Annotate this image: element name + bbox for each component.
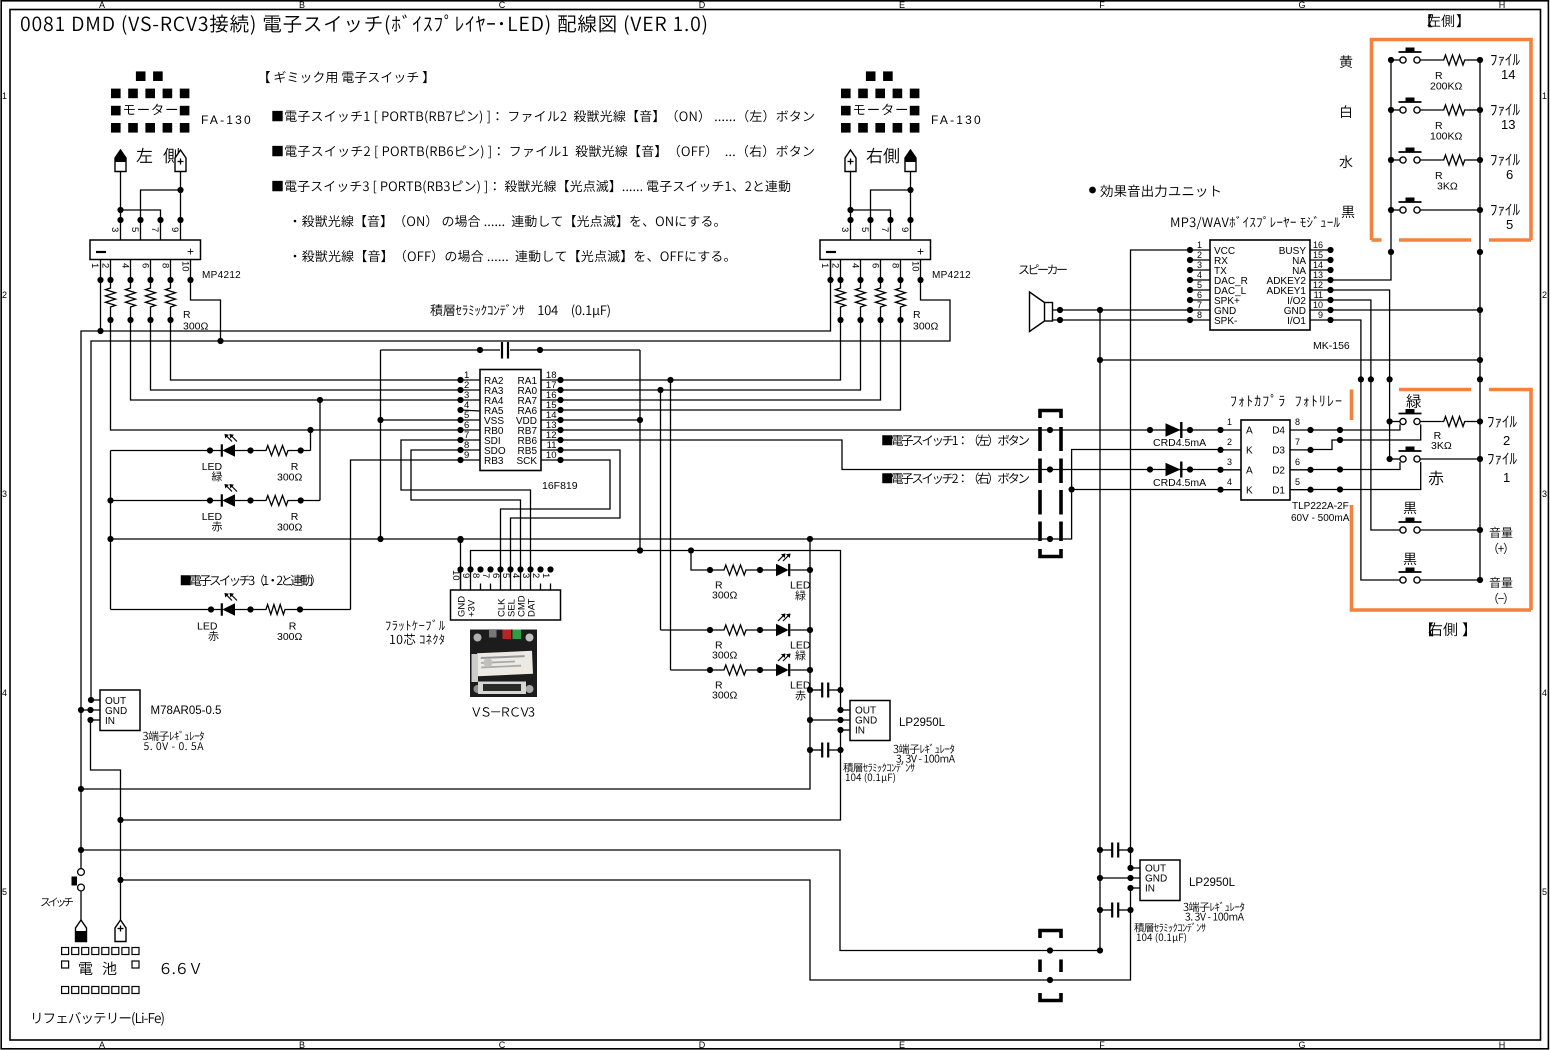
resistor R 300Ω (U1 pin2): [110, 280, 112, 286]
wire U5 D4 to file2 button left: [1311, 424, 1401, 430]
wire +3.3V bus y=550.5: [471, 551, 841, 711]
svg-text:SPK-: SPK-: [1214, 316, 1237, 327]
svg-text:G: G: [1298, 0, 1305, 10]
pin stubs J1: [460, 570, 462, 591]
label flat cable: [386, 622, 391, 631]
label ファイル6: [1491, 155, 1497, 166]
svg-text:13: 13: [1313, 270, 1323, 280]
svg-text:LED: LED: [202, 511, 223, 523]
note: switch 3 description: [272, 181, 282, 191]
svg-text:MP4212: MP4212: [202, 270, 241, 281]
capacitor C1 104 0.1uF (PIC VDD decoupling): [381, 349, 501, 351]
wire VSS rail x=380.5: [380, 350, 382, 539]
label ファイル5: [1491, 205, 1497, 216]
label switch3 linked: [181, 575, 191, 585]
terminal M2 minus: [905, 150, 916, 172]
svg-text:3: 3: [2, 489, 7, 499]
resistor R 300Ω (U2 pin8): [900, 280, 902, 286]
label 右側 (right side): [867, 148, 882, 164]
svg-text:6: 6: [870, 263, 881, 268]
regulator U8 LP2950L body: [1140, 860, 1180, 901]
note: gimmick switch heading: [266, 71, 270, 83]
resistor R 300Ω (U1 pin6): [150, 280, 152, 286]
wire pin3-pin7 jog: [121, 210, 161, 240]
label スイッチ: [41, 898, 50, 906]
svg-text:1: 1: [1542, 91, 1547, 101]
title: [21, 16, 30, 31]
note: OFF case: [294, 255, 297, 258]
wire RA1 drop to LED red2: [670, 380, 672, 670]
svg-text:+3V: +3V: [466, 599, 477, 617]
wire M1 plus to MP4212 pin9: [180, 172, 182, 241]
svg-text:2: 2: [1542, 290, 1547, 300]
svg-text:LP2950L: LP2950L: [899, 717, 946, 729]
svg-text:15: 15: [1313, 250, 1323, 260]
label ファイル13: [1491, 105, 1497, 116]
wire photorelay pin4 branch: [1072, 489, 1221, 491]
svg-text:LED: LED: [202, 461, 223, 473]
wire RA0 drop to LED green2: [660, 390, 662, 630]
pin stubs U4 left: [1190, 249, 1210, 251]
pin stubs U3 right: [541, 379, 561, 381]
button SW7 file1 (赤): [1390, 458, 1400, 460]
wire speaker to U4 GND: [1053, 309, 1191, 311]
svg-text:6: 6: [140, 263, 151, 268]
wire LED anode rail x=110.5: [110, 451, 112, 610]
svg-text:K: K: [1246, 446, 1253, 457]
svg-text:FA-130: FA-130: [931, 113, 983, 127]
battery 電池 6.6V symbol: [62, 948, 69, 955]
svg-text:E: E: [899, 1040, 905, 1050]
wire U1 pin8 to U3 RA2: [171, 320, 461, 380]
pin stubs U5 left: [1221, 429, 1242, 431]
svg-text:D4: D4: [1272, 426, 1285, 437]
op-amp U3 PIC 16F819 body: [480, 370, 541, 471]
svg-text:5: 5: [1197, 280, 1202, 290]
led D5 green2 with resistor: [661, 629, 723, 631]
svg-text:6: 6: [1506, 167, 1513, 182]
svg-text:LED: LED: [197, 621, 218, 633]
svg-text:4: 4: [120, 263, 131, 268]
led D1 green (left) with resistor: [111, 450, 222, 452]
label 【右側】: [1429, 622, 1433, 636]
wire U3 SDI to connector pin3: [401, 440, 531, 570]
driver U1 MP4212 (left): [90, 240, 201, 260]
svg-text:6: 6: [1295, 457, 1300, 467]
wire pin9-pin5 jog: [141, 190, 181, 240]
svg-text:5: 5: [859, 227, 870, 232]
capacitor C2 104 (reg1 OUT): [810, 689, 822, 691]
svg-text:B: B: [299, 1040, 305, 1050]
wire U1 pin2 to U3 RB0: [111, 320, 461, 430]
svg-text:C: C: [499, 0, 506, 10]
label switch1 left button: [882, 435, 892, 445]
svg-text:8: 8: [160, 263, 171, 268]
svg-text:300Ω: 300Ω: [277, 631, 303, 643]
svg-text:R: R: [183, 309, 191, 321]
label ceramic capacitor (first): [843, 763, 853, 773]
svg-text:3: 3: [109, 227, 120, 232]
svg-text:12: 12: [1313, 280, 1323, 290]
svg-text:TLP222A-2F: TLP222A-2F: [1292, 501, 1349, 512]
terminal battery plus: [115, 920, 126, 942]
svg-text:1: 1: [1503, 470, 1510, 485]
svg-text:5: 5: [500, 573, 511, 578]
svg-text:4: 4: [2, 688, 7, 698]
resistor R 200KΩ: [1442, 55, 1467, 65]
svg-text:8: 8: [1295, 417, 1300, 427]
svg-text:K: K: [1246, 486, 1253, 497]
svg-text:4: 4: [1197, 270, 1202, 280]
label 3-terminal regulator (first): [893, 745, 898, 753]
wire U3 VSS to ground rail: [381, 419, 461, 421]
svg-text:5: 5: [2, 887, 7, 897]
svg-text:+: +: [187, 245, 194, 259]
svg-text:R: R: [913, 309, 921, 321]
svg-text:B: B: [299, 0, 305, 10]
label ファイル14: [1491, 55, 1497, 66]
label 効果音出力ユニット: [1089, 187, 1096, 194]
wire U5 D3 to file2 button right: [1311, 424, 1421, 449]
label 電池 6.6V: [79, 962, 92, 975]
wire +6.6V bus y=880 to reg2 IN: [121, 880, 1131, 980]
svg-text:1: 1: [1227, 417, 1232, 427]
capacitor C4 104 (reg2 OUT): [1100, 849, 1112, 851]
svg-text:C: C: [499, 1040, 506, 1050]
svg-text:D: D: [699, 0, 706, 10]
label ファイル1: [1488, 454, 1494, 465]
wire U4 I/O1 to volume- button: [1331, 320, 1400, 580]
svg-text:13: 13: [1501, 117, 1515, 132]
svg-text:5: 5: [1542, 887, 1547, 897]
terminal M2 plus: [845, 150, 856, 172]
wire U3 VDD to decoupling net: [561, 419, 641, 421]
svg-text:D: D: [699, 1040, 706, 1050]
svg-text:I/O1: I/O1: [1287, 316, 1306, 327]
svg-text:4: 4: [1227, 477, 1232, 487]
resistor R 300Ω (U1 pin4): [130, 280, 132, 286]
svg-text:F: F: [1099, 1040, 1105, 1050]
label switch2 right button: [882, 473, 892, 483]
wire button rail x=1480 (GND): [1479, 60, 1481, 580]
wire pin3-pin7 jog (right): [851, 210, 891, 240]
svg-text:8: 8: [1197, 310, 1202, 320]
svg-text:LP2950L: LP2950L: [1189, 877, 1236, 889]
svg-text:300Ω: 300Ω: [712, 690, 738, 702]
pin stubs U3 left: [461, 379, 481, 381]
svg-text:8: 8: [470, 573, 481, 578]
wire minus bus y=331 and battery-minus rail x=81: [81, 260, 831, 869]
led D3 red (switch3) with resistor: [111, 609, 222, 611]
connector J3 (power cable, dashed): [1040, 931, 1061, 939]
label ファイル2: [1488, 417, 1494, 428]
svg-text:H: H: [1499, 0, 1506, 10]
label ceramic capacitor (second): [1134, 923, 1144, 933]
svg-text:SCK: SCK: [516, 456, 537, 467]
module U4 MK-156 body: [1210, 240, 1310, 330]
svg-text:MK-156: MK-156: [1313, 340, 1350, 352]
led D6 red2 with resistor: [671, 669, 723, 671]
wire U3 RB5 to connector pin5: [511, 450, 621, 570]
svg-text:300Ω: 300Ω: [712, 590, 738, 602]
regulator U6 M78AR05-0.5 body: [100, 690, 140, 731]
connector J2 (signal cable, dashed): [1040, 411, 1061, 419]
ground rail x=810 (LED cathodes, reg1 GND): [81, 539, 810, 789]
svg-text:LED: LED: [790, 580, 811, 592]
switch SW1 power スイッチ: [78, 869, 85, 876]
svg-text:6: 6: [490, 573, 501, 578]
svg-text:300Ω: 300Ω: [712, 650, 738, 662]
svg-text:FA-130: FA-130: [201, 113, 253, 127]
svg-text:H: H: [1499, 1040, 1506, 1050]
svg-text:IN: IN: [1145, 884, 1155, 895]
svg-text:A: A: [99, 0, 105, 10]
svg-text:14: 14: [1313, 260, 1323, 270]
svg-text:1: 1: [540, 573, 551, 578]
wire switch to battery minus: [80, 891, 82, 920]
connector J1 flat cable 10pin body: [451, 590, 561, 620]
svg-text:2: 2: [1197, 250, 1202, 260]
wire GND bus y=850 to reg2 ground rail: [81, 850, 1100, 951]
svg-text:6: 6: [1197, 290, 1202, 300]
pin stubs U8: [1131, 867, 1141, 869]
wire speaker to U4 SPK-: [1053, 319, 1191, 321]
wire U1 pin1 to minus bus: [100, 280, 102, 331]
svg-text:D3: D3: [1272, 446, 1285, 457]
wire branch to LED red (left): [319, 400, 321, 501]
button SW3 file13: [1391, 109, 1400, 111]
resistor R 300Ω (U2 pin4): [860, 280, 862, 286]
pin stubs U7: [841, 709, 851, 711]
svg-text:A: A: [1246, 426, 1253, 437]
wire GND bus y=539 to photorelay cathodes: [111, 450, 1221, 540]
button SW2 file14: [1391, 59, 1400, 61]
module VS-RCV3 photo: [470, 630, 537, 698]
svg-text:CRD4.5mA: CRD4.5mA: [1153, 477, 1206, 489]
orange panel (right unit): [1350, 390, 1354, 421]
svg-text:M78AR05-0.5: M78AR05-0.5: [151, 705, 222, 717]
wire reg1 IN to +6.6V bus y=820: [121, 730, 841, 820]
svg-text:1: 1: [1197, 240, 1202, 250]
wire pin9-pin5 jog (right): [871, 190, 911, 240]
label VS-RCV3: [472, 707, 480, 716]
wire U4 VCC to reg2 OUT: [1131, 250, 1191, 868]
wire M2 plus to MP4212 pin3: [850, 172, 852, 241]
svg-text:1: 1: [819, 263, 830, 268]
wire U3 RB3 to switch3 LED: [351, 460, 461, 610]
pin stub U3 RA5 (n.c.): [461, 410, 481, 411]
svg-text:2: 2: [530, 573, 541, 578]
svg-text:2: 2: [1227, 437, 1232, 447]
led D4 green (power) with resistor: [691, 551, 722, 571]
svg-text:MP4212: MP4212: [932, 270, 971, 281]
svg-text:200KΩ: 200KΩ: [1430, 81, 1463, 93]
pin stubs U2 bottom: [830, 260, 832, 281]
label MP3/WAV voice player module: [1171, 217, 1179, 227]
wire U3 RA6 to U2 pin8: [561, 320, 901, 410]
svg-text:3: 3: [1542, 489, 1547, 499]
label 3-terminal regulator (second): [1183, 903, 1188, 911]
resistor R 3KΩ (right unit): [1442, 417, 1467, 427]
svg-text:4: 4: [850, 263, 861, 268]
svg-text:300Ω: 300Ω: [277, 472, 303, 484]
resistor R 300Ω (U2 pin6): [880, 280, 882, 286]
svg-text:16F819: 16F819: [542, 480, 578, 492]
svg-text:7: 7: [480, 573, 491, 578]
svg-text:9: 9: [460, 573, 471, 578]
pin stubs U1 bottom: [100, 260, 102, 281]
label 【左側】: [1428, 14, 1432, 27]
photorelay U5 TLP222A-2F body: [1241, 420, 1290, 500]
svg-text:10: 10: [450, 570, 461, 581]
wire M2 minus to MP4212 pin9: [910, 172, 912, 241]
ground rail x=1100 (speaker GND to bottom bus): [1099, 310, 1101, 951]
svg-text:3: 3: [1197, 260, 1202, 270]
pin stubs J1 signal: [500, 570, 502, 591]
label 左側 (left side): [137, 148, 153, 163]
wire button rail x=1391 to ADKEY2: [1331, 60, 1392, 280]
note: switch 2 description: [272, 146, 282, 156]
svg-text:A: A: [1246, 466, 1253, 477]
svg-text:10: 10: [910, 261, 921, 272]
wire plus bus y=341 (M78AR05 OUT rail): [91, 280, 950, 700]
svg-text:3: 3: [1227, 457, 1232, 467]
wire U5 D1 to file1 button right: [1311, 462, 1421, 490]
pin stubs U4 right: [1310, 249, 1331, 251]
resistor R 300Ω (U1 pin8): [170, 280, 172, 286]
label 音量(-): [1490, 577, 1501, 588]
svg-text:5: 5: [129, 227, 140, 232]
svg-text:5: 5: [1506, 217, 1513, 232]
svg-text:7: 7: [1295, 437, 1300, 447]
svg-text:D1: D1: [1272, 486, 1285, 497]
svg-text:1: 1: [2, 91, 7, 101]
button SW5 file5: [1391, 209, 1400, 211]
svg-text:3: 3: [520, 573, 531, 578]
svg-text:10: 10: [180, 261, 191, 272]
note: switch 1 description: [272, 111, 282, 121]
wire U1 pin4 to U3 RA4: [131, 320, 461, 400]
button SW8 volume+ (黒): [1404, 502, 1417, 514]
resistor R 100KΩ: [1442, 105, 1467, 115]
label 音量(+): [1490, 527, 1501, 538]
wire U3 RA1 to U2 pin2: [561, 320, 841, 380]
svg-text:DAT: DAT: [526, 599, 537, 617]
svg-text:RB3: RB3: [484, 456, 504, 467]
svg-text:11: 11: [1314, 290, 1323, 300]
svg-text:CRD4.5mA: CRD4.5mA: [1153, 437, 1206, 449]
label リフェバッテリー(Li-Fe): [33, 1013, 40, 1024]
svg-text:A: A: [99, 1040, 105, 1050]
label capacitor C1 value: [430, 304, 442, 316]
wire U4 I/O2 to volume+ button: [1331, 300, 1400, 530]
button SW4 file6: [1391, 159, 1400, 161]
wire U3 RB7 (switch1) to photorelay pin1: [561, 429, 1221, 431]
pin stubs U5 right: [1290, 429, 1311, 431]
wire GND bus y=360: [1100, 359, 1480, 361]
wire U1 pin6 to U3 RA3: [151, 320, 461, 390]
svg-text:4: 4: [1542, 688, 1547, 698]
svg-text:8: 8: [890, 263, 901, 268]
wire U3 SDO to connector pin4: [411, 450, 521, 570]
wire branch to LED green (left): [310, 430, 312, 451]
wire VDD drop x=640: [639, 350, 641, 551]
svg-text:7: 7: [149, 227, 160, 232]
svg-text:3: 3: [839, 227, 850, 232]
orange panel (left unit): [1372, 40, 1532, 241]
svg-text:+: +: [917, 245, 924, 259]
label フォトカプラ フォトリレー: [1231, 397, 1236, 407]
svg-text:2: 2: [2, 290, 7, 300]
capacitor C3 104 (reg1 IN): [810, 749, 822, 751]
svg-text:1: 1: [89, 263, 100, 268]
resistor R 300Ω (U2 pin2): [840, 280, 842, 286]
label wire colors 黄 白 水 黒: [1340, 55, 1352, 68]
svg-text:D2: D2: [1272, 466, 1285, 477]
wire GND to connector pin10: [460, 540, 462, 590]
wire U4 ADKEY1 to file buttons: [1331, 290, 1390, 459]
wire U1 pin10 to plus bus: [191, 280, 221, 341]
terminal M1 minus: [115, 150, 126, 172]
svg-text:300Ω: 300Ω: [277, 522, 303, 534]
svg-text:9: 9: [1318, 310, 1323, 320]
diode D7 CRD 4.5mA (switch1): [1166, 423, 1181, 436]
diode D8 CRD 4.5mA (switch2): [1166, 463, 1181, 476]
svg-text:14: 14: [1501, 67, 1515, 82]
wire U4 GND to button rail: [1331, 309, 1481, 311]
motor M2 FA-130 (right): [866, 71, 876, 81]
svg-text:9: 9: [169, 227, 180, 232]
svg-text:G: G: [1298, 1040, 1305, 1050]
driver U2 MP4212 (right): [820, 240, 931, 260]
led D2 red (left) with resistor: [111, 500, 222, 502]
svg-text:300Ω: 300Ω: [913, 321, 939, 333]
pin stubs U6: [91, 699, 100, 701]
svg-text:IN: IN: [105, 716, 115, 727]
note: ON case: [294, 220, 297, 223]
svg-text:4: 4: [510, 573, 521, 578]
button SW9 volume- (黒): [1404, 553, 1417, 565]
svg-text:7: 7: [1197, 300, 1202, 310]
svg-text:LED: LED: [790, 640, 811, 652]
wire U3 SCK to connector pin6: [501, 460, 611, 570]
wire U3 RB6 (switch2) to photorelay pin3: [561, 440, 1221, 470]
svg-text:3KΩ: 3KΩ: [1431, 440, 1452, 452]
svg-text:10: 10: [1313, 300, 1323, 310]
svg-text:60V - 500mA: 60V - 500mA: [1291, 513, 1350, 524]
svg-text:F: F: [1099, 0, 1105, 10]
wire U5 D2 to file1 button left: [1311, 462, 1401, 470]
resistor R 3KΩ (left unit): [1442, 155, 1467, 165]
button SW6 file2 (緑): [1406, 394, 1421, 408]
capacitor C5 104 (reg2 IN): [1100, 909, 1112, 911]
regulator U7 LP2950L body: [850, 701, 890, 741]
wire U3 RA7 to U2 pin6: [561, 320, 881, 400]
svg-text:3KΩ: 3KΩ: [1437, 181, 1458, 193]
svg-text:9: 9: [899, 227, 910, 232]
svg-text:2: 2: [1503, 433, 1510, 448]
motor M1 FA-130 (left): [136, 71, 146, 81]
wire U3 RA0 to U2 pin4: [561, 320, 861, 390]
svg-text:E: E: [899, 0, 905, 10]
svg-text:7: 7: [879, 227, 890, 232]
svg-text:5: 5: [1295, 477, 1300, 487]
wire M1 minus to MP4212 pin3: [120, 172, 122, 241]
svg-text:16: 16: [1313, 240, 1323, 250]
svg-text:100KΩ: 100KΩ: [1430, 131, 1463, 143]
wire U6 IN to battery plus rail: [91, 720, 121, 920]
terminal battery minus: [76, 920, 87, 942]
